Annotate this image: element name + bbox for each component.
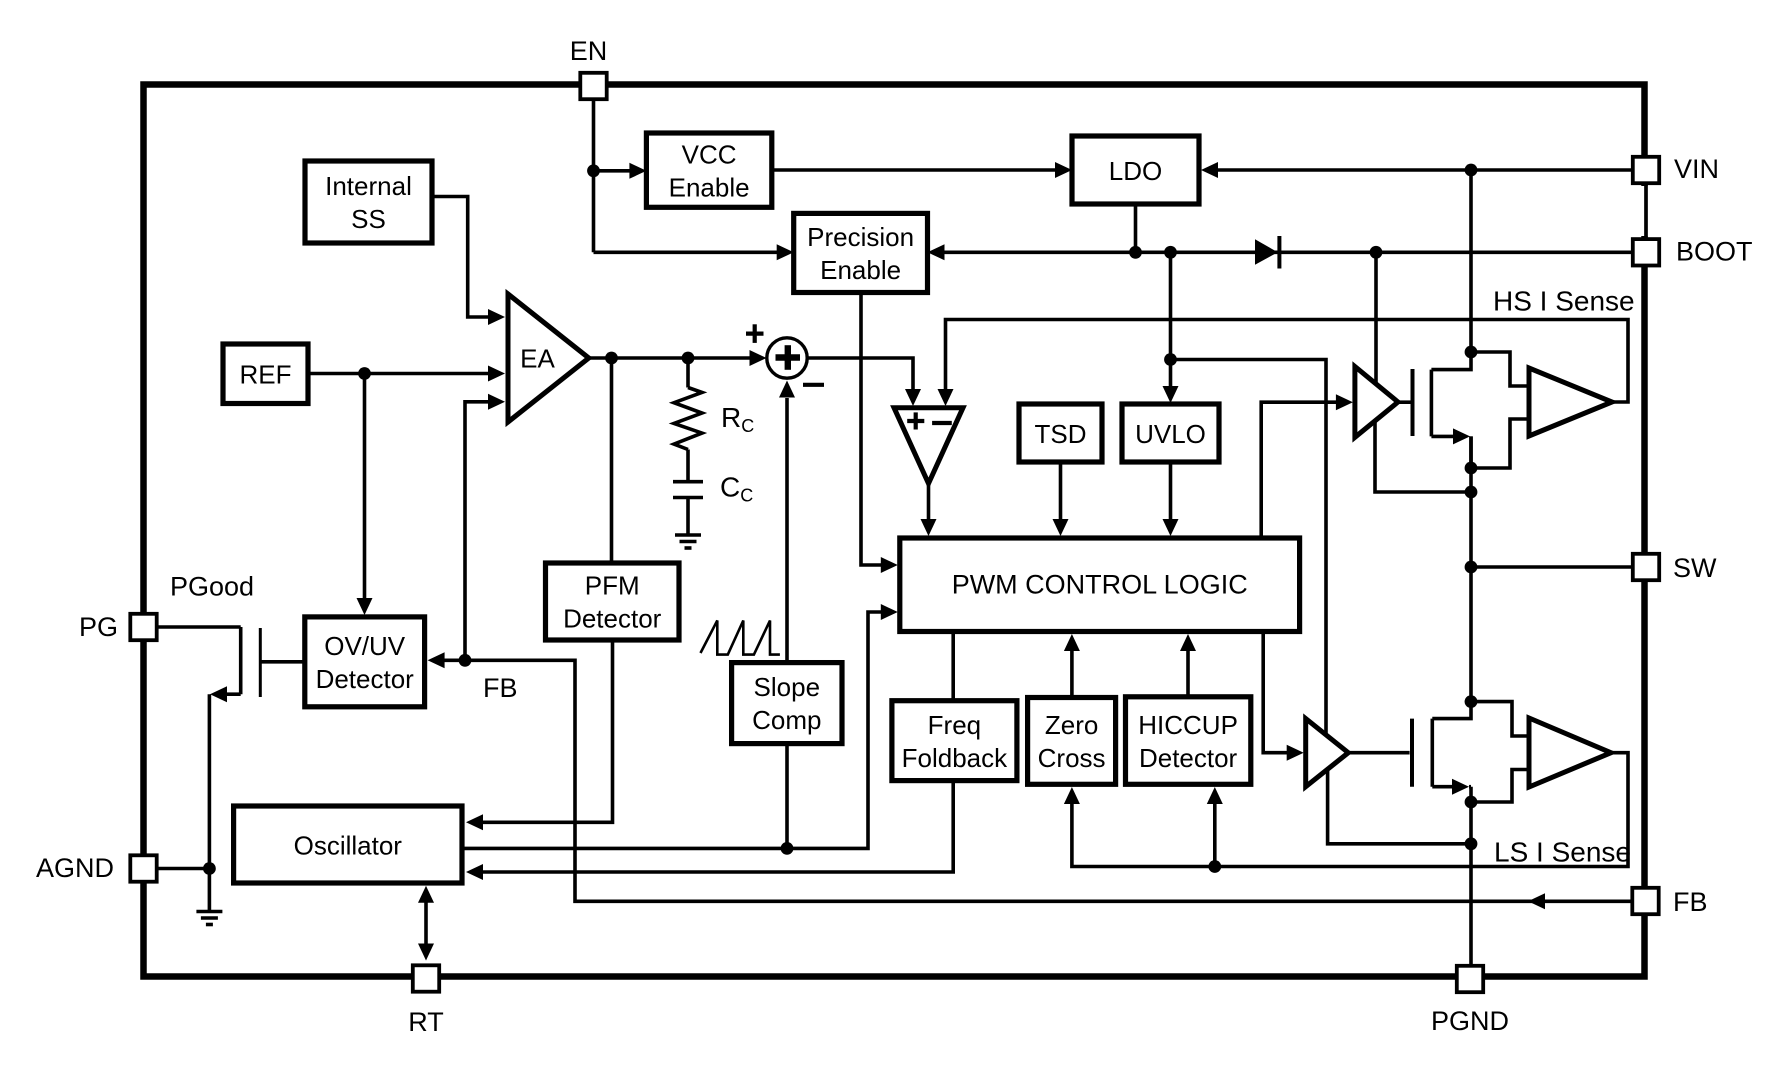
wire VIN pin to BOOT pin segment (1639, 186, 1650, 236)
wire AGND pin to ground (158, 867, 209, 871)
svg-text:Precision: Precision (807, 222, 914, 252)
pin BOOT (1633, 239, 1659, 265)
svg-text:AGND: AGND (36, 853, 114, 883)
svg-text:OV/UV: OV/UV (324, 631, 406, 661)
block VCC Enable (646, 133, 771, 207)
block Precision Enable (794, 213, 928, 292)
wire Slope Comp output up to summing junction (785, 398, 789, 663)
node HS I Sense taps to sense amp (1471, 352, 1527, 386)
svg-text:FB: FB (1673, 887, 1708, 917)
wire LS driver return to PGND node (1328, 770, 1471, 844)
svg-text:LS I Sense: LS I Sense (1494, 837, 1631, 868)
wire HS driver output to HS FET gate (1398, 400, 1411, 404)
svg-text:CC: CC (720, 472, 753, 506)
wire summing output to PWM comparator + input (808, 358, 914, 390)
block Freq Foldback (892, 701, 1017, 781)
svg-text:Oscillator: Oscillator (294, 830, 403, 860)
pin RT (413, 965, 439, 991)
wire PWM logic to HS gate driver (1261, 402, 1337, 538)
svg-text:TSD: TSD (1035, 419, 1087, 449)
op-amp EA error amplifier (508, 294, 589, 422)
wire EA output to summing junction (589, 356, 751, 360)
pin PGND (1457, 966, 1483, 992)
block OV/UV Detector (305, 617, 425, 707)
wire VCC Enable output to LDO (772, 168, 1057, 172)
svg-text:Zero: Zero (1045, 710, 1098, 740)
pin FB right (1632, 888, 1658, 914)
wire PWM comparator output to PWM logic (927, 484, 931, 521)
block PFM Detector (546, 563, 680, 640)
wire Zero Cross to PWM logic (1070, 651, 1074, 698)
svg-text:EN: EN (570, 36, 608, 66)
svg-text:HS I Sense: HS I Sense (1493, 286, 1635, 317)
transistor PGood open-drain (239, 627, 243, 694)
svg-text:PG: PG (79, 612, 118, 642)
svg-text:BOOT: BOOT (1676, 237, 1753, 267)
diode D1 on BOOT rail (1255, 239, 1278, 265)
gate driver HS (1355, 367, 1398, 438)
IC outer boundary (144, 85, 1645, 977)
svg-text:Internal: Internal (325, 171, 412, 201)
wire Oscillator output to PWM logic and Slope Comp (464, 612, 882, 848)
svg-text:PGood: PGood (170, 572, 254, 602)
wire EN net: EN pin down, branch to VCC Enable and Precision Enable (592, 101, 596, 253)
wire Precision Enable output to PWM logic (861, 293, 882, 566)
wire PFM Detector output to Oscillator (482, 640, 613, 822)
wire PG pin to PGood transistor (158, 625, 241, 629)
svg-text:HICCUP: HICCUP (1138, 710, 1238, 740)
transistor LS power FET (1432, 702, 1471, 719)
svg-text:Cross: Cross (1038, 743, 1106, 773)
wire TSD output to PWM logic (1059, 462, 1063, 520)
pin SW (1633, 554, 1659, 580)
wire UVLO output to PWM logic (1169, 462, 1173, 520)
svg-text:Detector: Detector (563, 604, 662, 634)
svg-text:Comp: Comp (752, 705, 821, 735)
resistor RC (686, 358, 690, 388)
label summing plus (746, 332, 764, 336)
block Oscillator (234, 806, 462, 883)
ground symbol AGND (196, 910, 222, 914)
block Zero Cross (1028, 698, 1116, 785)
wire Freq Foldback output to Oscillator (482, 781, 953, 872)
wire Slope Comp bottom to oscillator rail (785, 744, 789, 849)
wire Oscillator to RT pin (bidirectional) (424, 890, 428, 956)
block HICCUP Detector (1126, 697, 1251, 785)
wire LS driver output to LS FET gate (1348, 751, 1409, 755)
wire HICCUP Detector to PWM logic (1186, 651, 1190, 697)
pin VIN (1633, 157, 1659, 183)
transistor HS power FET (1431, 352, 1471, 370)
block Slope Comp (732, 663, 842, 744)
wire LS I Sense amp output to Zero Cross and HICCUP (1072, 753, 1628, 867)
block PWM CONTROL LOGIC (900, 538, 1300, 632)
svg-text:Detector: Detector (316, 664, 415, 694)
label summing minus (803, 383, 824, 387)
block REF (223, 344, 308, 404)
node LS I Sense taps to sense amp (1471, 702, 1527, 736)
svg-text:Freq: Freq (928, 710, 981, 740)
svg-text:PGND: PGND (1431, 1006, 1509, 1036)
wire HS I Sense feedback to PWM comparator - input (946, 320, 1629, 403)
block UVLO (1122, 404, 1219, 462)
wire PWM logic to Freq Foldback (951, 632, 955, 701)
wire VIN to LDO (1216, 168, 1632, 172)
svg-text:Enable: Enable (820, 255, 901, 285)
svg-text:Foldback: Foldback (902, 743, 1008, 773)
pin EN (580, 73, 606, 99)
svg-text:RC: RC (721, 402, 754, 436)
summing junction S1 (767, 338, 807, 378)
svg-text:EA: EA (520, 344, 555, 374)
sawtooth oscillator waveform icon (701, 621, 780, 655)
wire BOOT rail (944, 251, 1632, 255)
svg-text:Detector: Detector (1139, 743, 1238, 773)
op-amp LS current sense (1529, 718, 1611, 787)
svg-text:UVLO: UVLO (1135, 419, 1206, 449)
wire FB net from FB pin to OV/UV and EA (444, 660, 1632, 901)
svg-text:RT: RT (408, 1007, 444, 1037)
wire VIN drop to HS FET drain (1469, 170, 1473, 352)
svg-text:SS: SS (351, 204, 386, 234)
svg-text:PFM: PFM (585, 571, 640, 601)
wire REF output to EA and OV/UV Detector (308, 372, 492, 376)
svg-text:Enable: Enable (669, 172, 750, 202)
svg-text:REF: REF (240, 360, 292, 390)
wire HS driver return to SW node (1375, 421, 1471, 493)
svg-text:Slope: Slope (754, 672, 821, 702)
wire LDO output down to BOOT rail (1134, 204, 1138, 252)
svg-text:SW: SW (1673, 553, 1717, 583)
wire Internal SS output to EA (434, 197, 492, 318)
wire SW node rail (1469, 436, 1473, 567)
svg-text:FB: FB (483, 673, 518, 703)
svg-text:VIN: VIN (1674, 154, 1719, 184)
wire VCC rail down to UVLO (1169, 252, 1173, 359)
capacitor CC (686, 450, 690, 481)
wire EA output branch down to PFM Detector (610, 358, 614, 563)
wire BOOT branch to HS gate driver supply (1374, 252, 1378, 383)
gate driver LS (1306, 719, 1349, 787)
ground symbol compensation (675, 533, 701, 537)
wire SW rail down to LS FET drain (1469, 567, 1473, 702)
block TSD (1019, 404, 1102, 462)
svg-text:VCC: VCC (682, 139, 737, 169)
wire VCC branch to LS gate driver supply (1171, 360, 1327, 735)
pin AGND (130, 855, 156, 881)
svg-text:LDO: LDO (1109, 156, 1162, 186)
svg-text:PWM CONTROL LOGIC: PWM CONTROL LOGIC (952, 570, 1248, 600)
wire LS FET source down to PGND pin (1469, 787, 1473, 965)
wire PWM logic to LS gate driver (1263, 632, 1288, 753)
block LDO (1072, 136, 1199, 204)
pin PG (130, 614, 156, 640)
op-amp HS current sense (1529, 368, 1612, 436)
block Internal SS (305, 161, 432, 243)
op-amp PWM comparator (894, 408, 963, 484)
